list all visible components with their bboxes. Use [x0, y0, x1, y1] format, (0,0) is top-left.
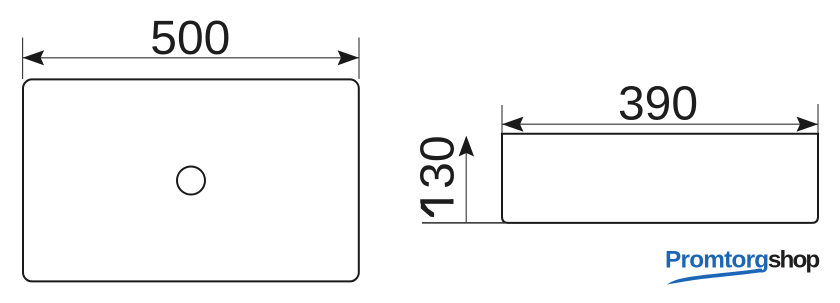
svg-text:390: 390 — [618, 78, 698, 131]
basin outline (top view) — [23, 79, 359, 281]
drain circle — [177, 167, 205, 195]
svg-text:500: 500 — [150, 12, 230, 65]
bottom extension line (130) — [422, 222, 505, 224]
svg-text:Promtorg: Promtorg — [665, 247, 768, 274]
extension line right (390) — [817, 104, 819, 133]
mask foot serif of "1" (bottom wing) — [449, 204, 455, 213]
dimension line 390 — [502, 123, 818, 125]
extension line left (500) — [22, 38, 24, 80]
extension line right (500) — [358, 38, 360, 80]
arrowhead right (500) — [338, 50, 360, 65]
flag of "1" redrawn — [421, 204, 434, 217]
stem of "1" redrawn — [421, 200, 454, 204]
dimension line 130 (vertical) — [465, 137, 467, 223]
arrowhead left (390) — [502, 117, 524, 132]
arrowhead up (130) — [459, 136, 475, 157]
dimension line 500 — [23, 57, 359, 59]
extension line left (390) — [501, 105, 503, 133]
arrowhead right (390) — [797, 117, 819, 132]
logo swoosh — [667, 268, 763, 284]
basin outline (side view) — [502, 134, 818, 223]
svg-text:shop: shop — [768, 247, 819, 274]
mask foot serif of "1" (top wing) — [449, 191, 455, 200]
arrowhead left (500) — [23, 50, 44, 65]
